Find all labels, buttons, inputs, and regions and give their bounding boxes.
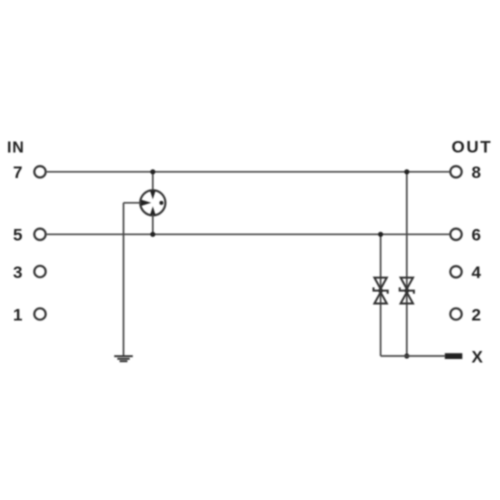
junction blob at D2 center — [404, 288, 409, 293]
terminal circle 1 — [34, 308, 45, 319]
wire right branch B vertical (row5 to X line) — [380, 234, 382, 356]
svg-text:X: X — [472, 347, 484, 366]
wire GDT branch bottom (arrester to row5) — [152, 215, 154, 235]
svg-text:1: 1 — [13, 305, 22, 324]
svg-text:2: 2 — [472, 305, 481, 324]
suppressor diode D1 (left, bidirectional) — [374, 278, 388, 304]
wire X line horizontal — [381, 355, 445, 357]
arrester top arrow (pointing down to center) — [150, 190, 156, 199]
svg-text:6: 6 — [472, 226, 481, 245]
wire row 5-6 — [47, 233, 450, 235]
svg-text:7: 7 — [13, 163, 22, 182]
terminal circle 4 — [450, 266, 461, 277]
junction dot X line / branch A — [404, 353, 409, 358]
wire right branch A vertical (row7 to X line) — [406, 172, 408, 356]
junction dot at row7 / GDT branch — [150, 169, 155, 174]
terminal circle 6 — [450, 229, 461, 240]
terminal circle 2 — [450, 308, 461, 319]
junction dot row7 / branch A — [404, 169, 409, 174]
gas discharge arrester U1 circle — [140, 190, 165, 215]
terminal circle 7 — [34, 166, 45, 177]
svg-text:OUT: OUT — [452, 138, 493, 157]
ground symbol — [114, 356, 133, 361]
junction dot row5 / branch B — [378, 232, 383, 237]
svg-text:8: 8 — [472, 163, 481, 182]
terminal X solid block — [445, 353, 463, 359]
arrester inner electrode dot — [159, 201, 163, 205]
svg-text:4: 4 — [472, 263, 482, 282]
wire arrester electrode down to ground — [123, 203, 125, 356]
svg-text:3: 3 — [13, 263, 22, 282]
svg-text:IN: IN — [7, 140, 25, 157]
arrester bottom arrow (pointing up to center) — [150, 206, 156, 215]
junction blob at D1 center — [378, 288, 383, 293]
wire row 7-8 — [47, 171, 450, 173]
wire arrester left electrode horizontal — [124, 202, 141, 204]
arrester left arrow (pointing right to center) — [141, 200, 151, 206]
wire GDT branch top (row7 to arrester) — [152, 172, 154, 191]
suppressor diode D2 (right, bidirectional) — [400, 278, 414, 304]
terminal circle 5 — [34, 229, 45, 240]
terminal circle 8 — [450, 166, 461, 177]
svg-text:5: 5 — [13, 226, 22, 245]
junction dot at row5 / GDT branch — [150, 232, 155, 237]
terminal circle 3 — [34, 266, 45, 277]
